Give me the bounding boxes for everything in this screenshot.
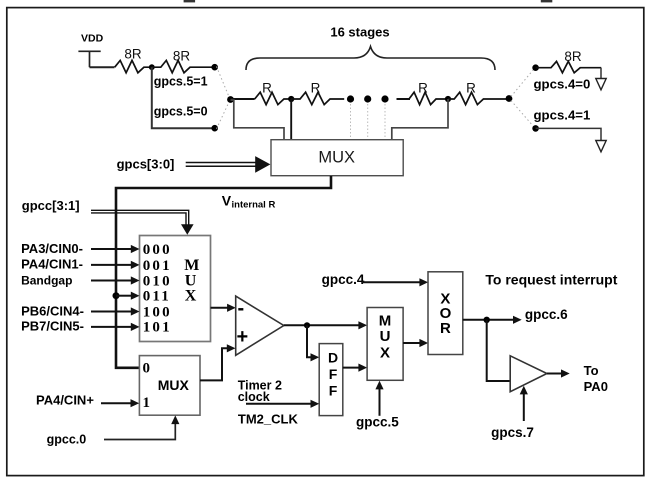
dff U4	[319, 344, 343, 416]
svg-text:F: F	[329, 366, 338, 382]
node rail to 011 input	[113, 292, 120, 299]
svg-text:+: +	[237, 326, 249, 348]
svg-text:gpcs.5=0: gpcs.5=0	[154, 104, 208, 118]
wire ladder left	[231, 98, 255, 100]
wire gpcc.0 to U3 select	[104, 415, 179, 439]
bus gpcc[3:1]	[91, 210, 194, 234]
svg-text:010: 010	[143, 273, 172, 289]
svg-text:16 stages: 16 stages	[330, 25, 389, 40]
svg-text:PA0: PA0	[584, 379, 608, 394]
svg-text:101: 101	[143, 320, 172, 336]
svg-text:100: 100	[143, 304, 172, 320]
svg-text:8R: 8R	[173, 49, 191, 64]
wire Vinternal rail from MUX to lower mux input 0	[116, 176, 331, 368]
bus gpcs[3:0]	[186, 156, 271, 173]
svg-text:PA4/CIN+: PA4/CIN+	[36, 393, 94, 408]
svg-text:gpcs.5=1: gpcs.5=1	[154, 74, 208, 88]
ground bottom right	[596, 141, 606, 152]
dotted taps to MUX	[351, 104, 386, 139]
node XOR out	[484, 317, 490, 323]
wire gpcs.4=1 to ground	[536, 128, 601, 140]
node switch gpcs.4=0	[532, 64, 539, 71]
svg-text:clock: clock	[238, 390, 270, 404]
brace 16 stages	[246, 47, 495, 71]
resistor 8R mid	[152, 60, 215, 72]
node ladder tap B	[445, 96, 451, 102]
wire junction down to lower contact	[152, 67, 212, 128]
wire PA3/CIN0- to 000	[91, 245, 140, 253]
switch dashed contact to gpcs.5=1	[217, 67, 230, 99]
svg-text:M: M	[379, 312, 392, 329]
wire buffer out to PA0	[547, 369, 570, 377]
svg-text:R: R	[262, 81, 272, 96]
svg-text:Bandgap: Bandgap	[21, 273, 72, 287]
svg-text:X: X	[185, 288, 197, 305]
resistor 8R left	[115, 60, 152, 72]
wire tap A to MUX	[290, 99, 292, 139]
svg-text:To: To	[584, 363, 599, 378]
svg-text:R: R	[440, 320, 451, 337]
wire PB7/CIN5- to 101	[91, 323, 140, 331]
wire PA4/CIN+ to input 1	[101, 399, 139, 407]
svg-text:PA4/CIN1-: PA4/CIN1-	[21, 257, 83, 272]
svg-text:gpcc.6: gpcc.6	[525, 307, 568, 322]
resistor R2 ladder	[291, 92, 344, 104]
resistor R1 ladder	[255, 92, 292, 104]
switch dashed contact to gpcs.5=0	[217, 101, 230, 129]
svg-text:gpcc[3:1]: gpcc[3:1]	[22, 198, 80, 213]
svg-text:R: R	[466, 81, 476, 96]
label Vinternal R	[222, 193, 276, 211]
mux U5 2-input	[367, 308, 403, 381]
svg-text:gpcc.5: gpcc.5	[356, 415, 399, 430]
wire U3 out to comparator plus	[200, 344, 236, 380]
svg-text:PB6/CIN4-: PB6/CIN4-	[21, 303, 84, 318]
svg-text:X: X	[380, 344, 390, 361]
node junction between 8R	[149, 64, 155, 70]
wire rail to 011	[116, 292, 140, 300]
node switch contact gpcs.5=1	[211, 64, 218, 71]
wire U5 out to XOR	[403, 339, 428, 347]
node ladder left	[227, 96, 234, 103]
ladder continuation dots	[347, 95, 389, 102]
svg-text:V: V	[222, 193, 232, 209]
svg-text:MUX: MUX	[318, 148, 355, 166]
svg-text:PB7/CIN5-: PB7/CIN5-	[21, 319, 84, 334]
svg-text:-: -	[238, 298, 245, 320]
wire PA4/CIN1- to 001	[91, 261, 140, 269]
svg-text:U: U	[380, 328, 391, 345]
svg-text:gpcs.4=1: gpcs.4=1	[534, 108, 591, 123]
svg-text:001: 001	[143, 258, 172, 274]
svg-text:VDD: VDD	[81, 33, 104, 45]
svg-text:gpcs.4=0: gpcs.4=0	[534, 77, 591, 92]
wire tap ladder-left to MUX	[231, 100, 285, 139]
mux U3 2-input	[139, 356, 200, 416]
mux U1 6-input	[140, 236, 211, 342]
svg-text:1: 1	[143, 395, 151, 411]
wire XOR out to gpcc.6	[463, 316, 522, 324]
wire tap B to MUX	[392, 99, 448, 139]
svg-text:0: 0	[143, 361, 151, 377]
resistor R4 ladder	[448, 92, 509, 104]
wire gpcc.4 to XOR	[362, 278, 428, 286]
svg-text:000: 000	[143, 242, 172, 258]
svg-text:8R: 8R	[124, 47, 142, 62]
svg-text:internal R: internal R	[232, 200, 276, 211]
label Timer 2 clock	[238, 378, 282, 404]
node ladder right	[506, 95, 513, 102]
wire node to buffer	[487, 320, 511, 381]
svg-text:PA3/CIN0-: PA3/CIN0-	[21, 241, 83, 256]
wire ellipsis to R3	[397, 98, 411, 100]
svg-text:MUX: MUX	[158, 377, 190, 393]
mux ladder selector	[271, 140, 403, 176]
svg-text:011: 011	[143, 289, 171, 305]
node switch contact gpcs.5=0	[211, 125, 218, 132]
svg-text:8R: 8R	[564, 49, 582, 64]
svg-text:gpcs[3:0]: gpcs[3:0]	[117, 157, 175, 172]
power VDD	[78, 51, 100, 67]
switch dashed contact to gpcs.4=1	[511, 101, 534, 127]
xor U6	[428, 272, 463, 355]
svg-text:gpcc.0: gpcc.0	[47, 433, 87, 447]
switch dashed contact to gpcs.4=0	[511, 70, 534, 97]
svg-text:F: F	[329, 382, 338, 398]
buffer U7	[510, 356, 547, 392]
wire VDD to 8R	[90, 66, 115, 68]
node ladder tap A	[288, 96, 294, 102]
svg-text:To request interrupt: To request interrupt	[485, 271, 617, 287]
wire 8R to ground	[600, 68, 602, 79]
svg-text:gpcs.7: gpcs.7	[491, 425, 534, 440]
wire gpcs.7 to buffer	[520, 386, 528, 421]
svg-text:TM2_CLK: TM2_CLK	[238, 411, 299, 426]
svg-text:D: D	[328, 349, 338, 365]
comparator U2	[236, 296, 284, 355]
svg-text:gpcc.4: gpcc.4	[322, 272, 365, 287]
wire Bandgap to 010	[91, 276, 140, 284]
resistor R3 ladder	[409, 92, 448, 104]
svg-text:M: M	[184, 257, 199, 274]
wire node to DFF	[307, 325, 319, 361]
wire timer clock to DFF	[246, 400, 319, 408]
label To PA0	[584, 363, 608, 394]
wire PB6/CIN4- to 100	[91, 307, 140, 315]
resistor 8R right	[536, 61, 602, 72]
svg-text:R: R	[418, 80, 428, 95]
wire U1 out to comparator minus	[211, 304, 236, 312]
ground top right	[596, 79, 606, 90]
wire comparator out to mux U5	[284, 321, 367, 329]
wire gpcc.5 to U5 select	[375, 381, 383, 416]
node comparator out	[304, 322, 310, 328]
svg-text:R: R	[311, 81, 321, 96]
node switch gpcs.4=1	[532, 125, 539, 132]
wire DFF out to mux U5	[343, 364, 367, 372]
